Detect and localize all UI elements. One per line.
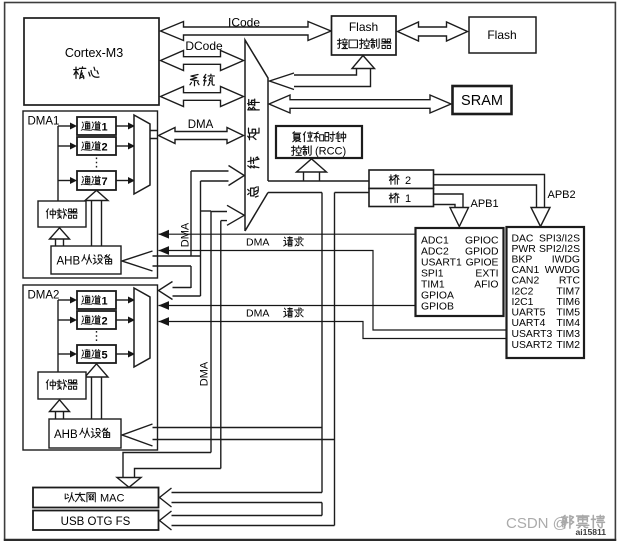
- DMA2 AHB slave box: [49, 419, 121, 448]
- SRAM double arrow: [269, 95, 451, 113]
- wire DMA2 ch2 to funnel: [116, 319, 129, 321]
- svg-text:Flash: Flash: [487, 28, 516, 42]
- solid arrowhead DMA1 ch1 to funnel: [128, 123, 135, 130]
- svg-text:TIM2: TIM2: [556, 340, 580, 351]
- wire DMA2 arbiter branch ch1: [58, 299, 71, 301]
- wire DMA request line R2: [159, 251, 507, 331]
- svg-text:5: 5: [102, 350, 108, 362]
- wire bridge1 to APB1 pipe: [434, 194, 464, 208]
- wire DMA2 AHB to ch5 arrow stem: [92, 377, 102, 419]
- svg-text:MAC: MAC: [100, 493, 125, 505]
- APB2 peripheral box text: [421, 236, 499, 313]
- svg-text:UART4: UART4: [512, 318, 546, 329]
- solid arrowhead DMA1 arbiter to ch7: [70, 177, 77, 184]
- arrowhead into DMA1 AHB slave: [122, 251, 153, 271]
- DMA2 channel5 box: [77, 345, 116, 363]
- solid arrowhead request R3: [159, 301, 170, 310]
- bridge2 box: [369, 170, 434, 189]
- wire DMA1 ch7 to funnel: [116, 180, 129, 182]
- arrowhead into matrix from W1: [229, 166, 245, 186]
- svg-text:TIM4: TIM4: [556, 318, 580, 329]
- DMA1 channel1 glyphs: [81, 121, 90, 130]
- flash interface controller box: [332, 16, 397, 55]
- DMA2 channel2 box: [77, 311, 116, 329]
- svg-text:ICode: ICode: [228, 16, 260, 30]
- arrowhead into DMA2 AHB slave: [122, 424, 153, 446]
- APB2 peripherals box: [416, 228, 504, 316]
- wire DMA request line R1: [159, 233, 416, 235]
- wire AHB bus matrix to bridges top line: [268, 180, 369, 182]
- arrowhead into USB OTG right edge: [160, 511, 172, 530]
- flash interface controller label glyphs: [337, 39, 347, 49]
- wire DMA2 channel dots: [96, 331, 98, 343]
- svg-text:EXTI: EXTI: [475, 269, 498, 280]
- solid arrowhead DMA2 ch2 to funnel: [128, 317, 135, 324]
- USB OTG FS box: [33, 511, 159, 531]
- flash iface to flash double arrow: [398, 22, 468, 41]
- bus matrix vertical label: [248, 187, 259, 197]
- wire DMA2 ch1 to funnel: [116, 299, 129, 301]
- DMA1 channel1 box: [77, 117, 116, 135]
- DMA1 AHB slave glyphs: [82, 255, 92, 264]
- bridge1 box: [369, 189, 434, 207]
- watermark glyph yun: [577, 515, 589, 528]
- svg-text:7: 7: [102, 176, 108, 188]
- svg-text:SPI3/I2S: SPI3/I2S: [539, 234, 580, 245]
- RCC box: [276, 126, 362, 158]
- svg-text:APB1: APB1: [471, 198, 499, 210]
- DMA double arrow: [159, 128, 244, 144]
- DMA2 funnel: [134, 288, 150, 367]
- wire DMA request line R4: [159, 322, 507, 339]
- wire ethernet slave arrow shaft: [172, 493, 323, 503]
- solid arrowhead DMA2 ch5 to funnel: [128, 351, 135, 358]
- svg-text:DMA: DMA: [199, 361, 211, 386]
- RCC label line1 glyphs: [293, 132, 301, 142]
- wire DMA1 AHB to arbiter arrow stem: [56, 239, 64, 246]
- svg-text:DMA1: DMA1: [28, 116, 60, 128]
- wire DMA2 arbiter feed vertical: [57, 300, 59, 372]
- svg-text:I2C2: I2C2: [512, 287, 534, 298]
- wire DMA request line R3: [159, 305, 416, 307]
- wire W1-W2 connector stub: [201, 210, 212, 212]
- svg-text:CAN2: CAN2: [512, 276, 540, 287]
- svg-text:DMA: DMA: [188, 119, 214, 131]
- system bus label: [190, 74, 199, 85]
- solid arrowhead DMA1 ch2 to funnel: [128, 143, 135, 150]
- watermark: [506, 515, 568, 532]
- svg-text:ADC2: ADC2: [421, 247, 449, 258]
- wire USB slave arrow shaft: [172, 516, 335, 526]
- DMA2 channel1 glyphs: [81, 295, 90, 304]
- DMA2 arbiter box: [38, 372, 86, 399]
- svg-text:TIM3: TIM3: [556, 329, 580, 340]
- bridge2 glyph: [389, 175, 399, 185]
- DMA2 channel2 glyphs: [81, 315, 90, 324]
- RCC label line2 glyphs: [291, 146, 301, 156]
- wire DMA1 arbiter branch ch2: [58, 145, 71, 147]
- wire channel W2 right wall: [220, 221, 222, 469]
- watermark glyph bo: [591, 515, 604, 528]
- svg-text:Flash: Flash: [349, 20, 378, 34]
- frame bottom edge: [4, 539, 616, 541]
- svg-text:GPIOD: GPIOD: [465, 247, 499, 258]
- svg-text:TIM7: TIM7: [556, 287, 580, 298]
- arrowhead up into RCC: [297, 159, 327, 172]
- svg-text:GPIOC: GPIOC: [465, 236, 499, 247]
- DMA1 funnel: [134, 115, 150, 194]
- wire ethernet top arrow stem handled in elbow: [159, 234, 507, 338]
- DMA2 arbiter glyphs: [46, 380, 55, 390]
- APB1 peripherals box: [507, 227, 585, 358]
- arrowhead up DMA1 AHB to arbiter: [50, 228, 70, 239]
- svg-text:GPIOB: GPIOB: [421, 302, 454, 313]
- solid arrowhead request R2: [159, 246, 170, 255]
- svg-text:AHB: AHB: [54, 429, 78, 441]
- wire W2 bottom elbow to ethernet top arrow: [123, 453, 221, 478]
- wire AHB vertical channel left wall to ethernet/usb: [321, 193, 323, 516]
- arrowhead into bus matrix from flash interface elbow: [270, 73, 295, 90]
- svg-text:USB OTG FS: USB OTG FS: [61, 516, 131, 528]
- wire DMA2 arbiter branch ch5: [58, 353, 71, 355]
- svg-text:IWDG: IWDG: [552, 255, 580, 266]
- svg-text:UART5: UART5: [512, 308, 546, 319]
- system bus double arrow: [161, 87, 244, 107]
- svg-text:1: 1: [102, 296, 108, 308]
- wire DMA1 arbiter feed vertical: [57, 126, 59, 201]
- DMA1 channel2 glyphs: [81, 141, 90, 150]
- DMA request label1 glyphs: [284, 237, 293, 246]
- svg-text:DMA: DMA: [246, 308, 269, 320]
- bridge1 glyph: [389, 193, 399, 203]
- wire DMA1 arbiter branch ch7: [58, 180, 71, 182]
- svg-text:DCode: DCode: [185, 39, 223, 53]
- wire DMA1 channel dots: [96, 158, 98, 170]
- svg-text:SRAM: SRAM: [461, 93, 503, 109]
- wire channel W1 right wall: [200, 181, 202, 296]
- wire DMA2 ch5 to funnel: [116, 353, 129, 355]
- solid arrowhead DMA2 arbiter to ch1: [70, 297, 77, 304]
- arrowhead up DMA2 AHB to ch5: [85, 364, 108, 377]
- APB1 peripheral box text: [512, 234, 581, 352]
- wire DMA2 arbiter branch ch2: [58, 319, 71, 321]
- DMA1 arbiter glyphs: [46, 209, 55, 219]
- svg-text:AFIO: AFIO: [474, 280, 498, 291]
- svg-text:DAC: DAC: [512, 234, 534, 245]
- svg-text:2: 2: [405, 175, 411, 187]
- DMA request label2 glyphs: [284, 308, 293, 317]
- svg-text:Cortex-M3: Cortex-M3: [65, 46, 123, 60]
- svg-text:USART2: USART2: [512, 340, 553, 351]
- svg-text:SPI1: SPI1: [421, 269, 444, 280]
- svg-text:1: 1: [102, 122, 108, 134]
- svg-text:RTC: RTC: [559, 276, 581, 287]
- DCode double arrow: [161, 51, 244, 71]
- svg-text:DMA: DMA: [180, 222, 192, 247]
- arrowhead down APB1: [450, 208, 469, 227]
- bus matrix body: [245, 40, 268, 231]
- svg-text:TIM5: TIM5: [556, 308, 580, 319]
- svg-text:DMA2: DMA2: [28, 290, 60, 302]
- wire bridge2 to APB2 pipe: [434, 175, 545, 208]
- svg-text:USART1: USART1: [421, 258, 462, 269]
- svg-text:DMA: DMA: [246, 237, 269, 249]
- ethernet MAC box: [33, 488, 159, 508]
- wire channel W2 ethernet-dma left wall: [210, 212, 212, 453]
- wire AHB vertical channel right wall: [334, 193, 336, 526]
- svg-text:2: 2: [102, 142, 108, 154]
- arrowhead up DMA1 AHB to ch7: [85, 190, 108, 200]
- wire channel W1 matrix to DMA2 funnel left wall: [190, 171, 192, 288]
- SRAM box: [453, 86, 512, 114]
- ICode double arrow: [161, 22, 332, 41]
- Cortex-M3 core box: [24, 18, 159, 105]
- wire branch to DMA2 AHB slave: [153, 428, 335, 440]
- solid arrowhead DMA2 arbiter to ch2: [70, 317, 77, 324]
- Cortex core label glyphs: [74, 67, 86, 79]
- DMA1 channel2 box: [77, 137, 116, 155]
- svg-text:(RCC): (RCC): [315, 146, 346, 158]
- wire AHB bus matrix to bridges bottom line: [268, 192, 369, 194]
- svg-text:ADC1: ADC1: [421, 236, 449, 247]
- arrowhead down APB2: [531, 208, 550, 227]
- solid arrowhead request R1: [159, 230, 170, 239]
- wire arrow-alpha shaft into matrix: [191, 171, 229, 181]
- arrowhead up into flash interface controller: [352, 56, 375, 69]
- svg-text:1: 1: [405, 193, 411, 205]
- DMA2 channel5 glyphs: [81, 349, 90, 358]
- wire DMA1 ch2 to funnel: [116, 145, 129, 147]
- arrowhead into DMA2 funnel: [159, 282, 173, 300]
- wire DMA1 ch1 to funnel: [116, 125, 129, 127]
- svg-text:2: 2: [102, 316, 108, 328]
- solid arrowhead DMA1 arbiter to ch2: [70, 143, 77, 150]
- wire shaft into DMA2 funnel: [173, 288, 201, 297]
- svg-text:TIM1: TIM1: [421, 280, 445, 291]
- svg-text:I2C1: I2C1: [512, 297, 534, 308]
- wire arrow-gamma shaft into matrix: [211, 212, 227, 221]
- svg-text:PWR: PWR: [512, 244, 537, 255]
- arrowhead down into ethernet MAC top: [117, 478, 141, 488]
- svg-text:WWDG: WWDG: [545, 265, 580, 276]
- wire flash interface elbow shaft: [294, 69, 371, 87]
- solid arrowhead DMA2 ch1 to funnel: [128, 297, 135, 304]
- svg-text:CSDN @: CSDN @: [506, 515, 568, 532]
- wire DMA1 arbiter branch ch1: [58, 125, 71, 127]
- arrowhead into ethernet MAC right edge: [160, 488, 172, 507]
- svg-text:APB2: APB2: [548, 189, 576, 201]
- svg-text:AHB: AHB: [57, 255, 81, 267]
- wire DMA1 AHB to ch7 arrow stem: [92, 201, 102, 247]
- DMA1 channel7 box: [77, 171, 116, 190]
- DMA1 box: [23, 111, 158, 278]
- solid arrowhead request R4: [159, 317, 170, 326]
- watermark glyph guo: [561, 515, 573, 528]
- svg-text:BKP: BKP: [512, 255, 533, 266]
- wire DMA2 AHB to arbiter arrow stem: [56, 412, 64, 420]
- svg-text:USART3: USART3: [512, 329, 553, 340]
- DMA2 box: [23, 285, 158, 450]
- DMA1 arbiter box: [38, 201, 86, 227]
- DMA1 AHB slave box: [51, 246, 121, 274]
- ethernet MAC label glyphs: [65, 493, 74, 502]
- DMA1 channel7 glyphs: [81, 176, 90, 185]
- svg-text:TIM6: TIM6: [556, 297, 580, 308]
- svg-text:SPI2/I2S: SPI2/I2S: [539, 244, 580, 255]
- DMA2 channel1 box: [77, 291, 116, 309]
- svg-text:GPIOA: GPIOA: [421, 291, 454, 302]
- arrowhead into matrix from ethernet channel: [227, 205, 244, 225]
- wire RCC arrow stem: [304, 172, 320, 181]
- svg-text:GPIOE: GPIOE: [466, 258, 499, 269]
- wire DMA1 funnel output stubs: [150, 131, 158, 139]
- solid arrowhead DMA2 arbiter to ch5: [70, 351, 77, 358]
- solid arrowhead DMA1 ch7 to funnel: [128, 177, 135, 184]
- flash box: [469, 17, 536, 53]
- solid arrowhead DMA1 arbiter to ch1: [70, 123, 77, 130]
- svg-text:CAN1: CAN1: [512, 265, 540, 276]
- arrowhead up DMA2 AHB to arbiter: [50, 400, 70, 412]
- svg-text:ai15811: ai15811: [576, 527, 607, 537]
- DMA2 AHB slave glyphs: [80, 428, 90, 437]
- wire branch to DMA1 AHB slave: [153, 256, 201, 266]
